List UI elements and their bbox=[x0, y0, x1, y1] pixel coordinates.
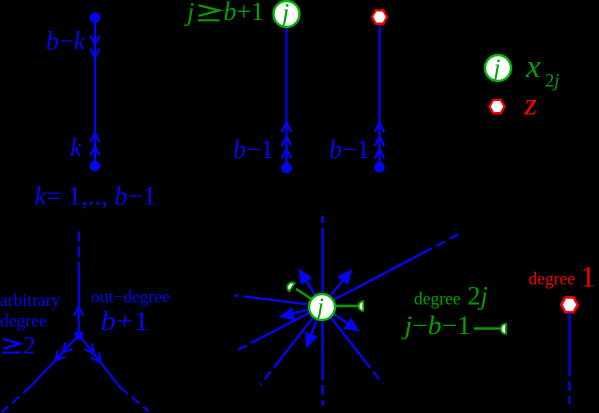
star spoke down-right dashed bbox=[364, 360, 383, 384]
arrowhead chevron up 1 on E1 bbox=[90, 133, 99, 143]
star spoke upper-right solid bbox=[334, 253, 423, 300]
node dot bottom of E3 bbox=[374, 162, 385, 173]
svg-text:1: 1 bbox=[581, 261, 596, 294]
tree left edge solid bbox=[31, 337, 77, 387]
legend hexagon vertex bbox=[490, 100, 505, 113]
stub with triangle arrowhead down-left bbox=[311, 318, 318, 336]
green line after j-b-1 bbox=[474, 327, 501, 329]
star spoke up solid bbox=[321, 238, 323, 294]
arrowhead chevron up on stem bbox=[74, 307, 83, 317]
star spoke left-down solid bbox=[260, 312, 310, 338]
svg-text:b−1: b−1 bbox=[233, 135, 274, 164]
vertex circle x2j top of E2 bbox=[274, 1, 300, 27]
star spoke upper-right dashed bbox=[423, 234, 459, 253]
arrowhead chevron up 2 on E2 bbox=[282, 136, 291, 146]
tree right edge dashed bbox=[120, 387, 148, 411]
star spoke down-left dashed bbox=[260, 360, 280, 385]
svg-text:2j: 2j bbox=[468, 282, 488, 311]
tree stem solid bbox=[78, 262, 80, 333]
node dot bottom of E1 bbox=[90, 161, 101, 172]
edge E2 vertical (second column) bbox=[285, 26, 287, 168]
star center circle j bbox=[309, 294, 335, 320]
stub with triangle arrowhead up-left bbox=[306, 280, 316, 295]
node dot bottom of E2 bbox=[281, 163, 292, 174]
arrowhead chevron down 2 on E1 bbox=[90, 49, 99, 59]
arrowhead chevron down 1 on E1 bbox=[90, 36, 99, 46]
chevron 2 on left edge bbox=[55, 351, 65, 361]
svg-text:k= 1,.., b−1: k= 1,.., b−1 bbox=[35, 182, 157, 211]
chevron 1 on left edge bbox=[63, 342, 73, 352]
stub with triangle arrowhead down-right bbox=[333, 313, 349, 324]
svg-text:j−b−1: j−b−1 bbox=[401, 311, 471, 340]
green stub right bbox=[335, 305, 359, 307]
star spoke up dashed bbox=[321, 216, 323, 238]
arrowhead chevron up 3 on E2 bbox=[282, 149, 291, 159]
svg-text:2: 2 bbox=[23, 333, 36, 360]
node dot top of E1 bbox=[90, 12, 101, 23]
chevron 1 on right edge bbox=[85, 343, 95, 353]
star spoke down-left solid bbox=[280, 317, 314, 360]
star spoke left-down dashed bbox=[236, 338, 260, 351]
arrowhead chevron up 2 on E3 bbox=[375, 136, 384, 146]
svg-text:degree: degree bbox=[529, 269, 576, 289]
svg-text:z: z bbox=[524, 86, 538, 122]
chevron 2 on right edge bbox=[91, 352, 101, 362]
star spoke down-right solid bbox=[330, 317, 364, 360]
hexagon vertex z (bottom right) bbox=[561, 297, 577, 312]
edge below hexagon solid bbox=[568, 313, 570, 367]
svg-text:x: x bbox=[525, 49, 541, 85]
arrowhead chevron up 3 on E3 bbox=[375, 149, 384, 159]
tree dashed stem top bbox=[78, 232, 80, 259]
svg-text:degree: degree bbox=[414, 289, 461, 309]
arrowhead chevron up 1 on E3 bbox=[375, 123, 384, 133]
edge E3 vertical (third column) bbox=[378, 24, 380, 167]
tree left edge dashed bbox=[2, 387, 31, 413]
edge below hexagon dashed bbox=[568, 366, 570, 404]
label >= 2 bbox=[3, 339, 20, 349]
tree root square node bbox=[75, 332, 83, 340]
arrowhead chevron up 1 on E2 bbox=[282, 123, 291, 133]
edge E1 vertical (top-left) bbox=[94, 18, 96, 166]
arrowhead chevron up 2 on E1 bbox=[90, 146, 99, 156]
svg-text:b−1: b−1 bbox=[329, 135, 370, 164]
svg-text:k: k bbox=[70, 133, 82, 162]
svg-text:b+1: b+1 bbox=[101, 306, 150, 336]
svg-text:2j: 2j bbox=[545, 72, 559, 92]
svg-text:degree: degree bbox=[0, 311, 47, 331]
white semicircle marker up-left bbox=[287, 283, 294, 292]
white semicircle marker after j-b-1 bbox=[501, 324, 506, 334]
white semicircle marker right bbox=[358, 301, 363, 311]
star spoke left-up dashed bbox=[235, 295, 254, 297]
svg-text:b+1: b+1 bbox=[224, 0, 265, 26]
stub with triangle arrowhead left bbox=[292, 309, 310, 314]
star spoke down solid bbox=[321, 318, 323, 370]
tree right edge solid bbox=[81, 337, 121, 387]
green stub up-left bbox=[296, 289, 311, 299]
svg-text:b−k: b−k bbox=[46, 27, 86, 56]
star spoke left-up solid bbox=[254, 298, 309, 305]
stub with triangle arrowhead up-right bbox=[330, 279, 344, 296]
svg-text:out−degree: out−degree bbox=[91, 287, 170, 307]
svg-text:arbitrary: arbitrary bbox=[0, 290, 60, 310]
vertex hexagon z top of E3 bbox=[372, 10, 387, 23]
legend circle vertex bbox=[485, 55, 511, 81]
star spoke down dashed bbox=[321, 370, 323, 406]
